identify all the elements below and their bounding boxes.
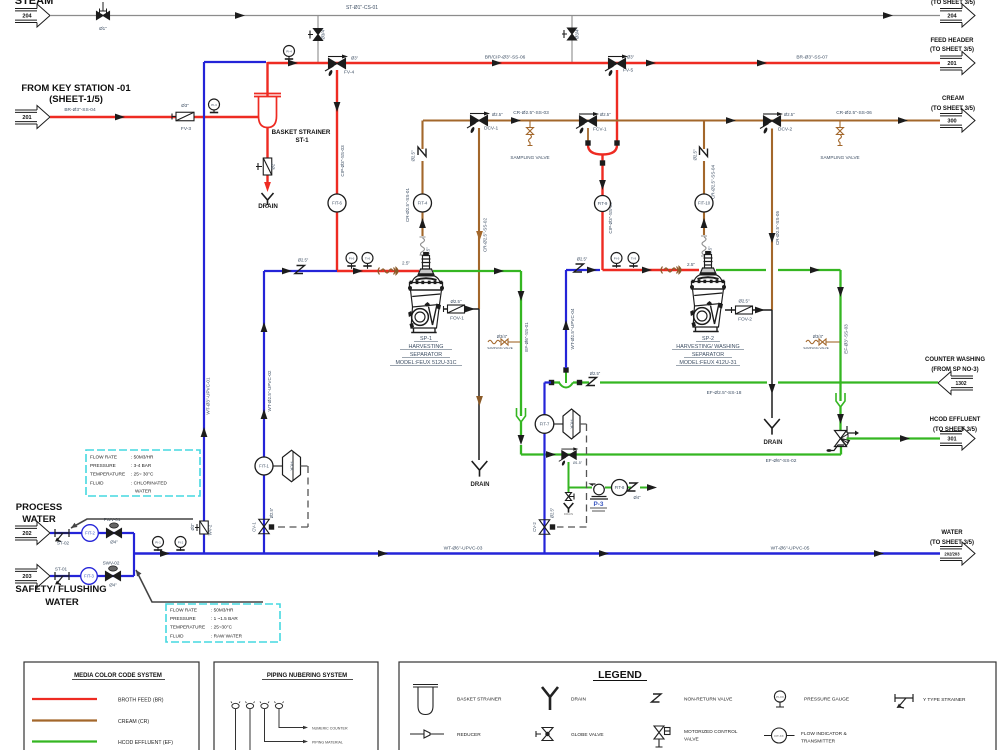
svg-text:COUNTER WASHING: COUNTER WASHING (925, 357, 985, 363)
svg-text:MODEL:FEUX 412U-31: MODEL:FEUX 412U-31 (679, 360, 736, 366)
wire drain drop SP-2 (771, 310, 773, 418)
svg-text:CR-Ø2.5"-SS-06: CR-Ø2.5"-SS-06 (836, 110, 872, 116)
svg-text:NUMERIC COUNTER: NUMERIC COUNTER (312, 727, 348, 731)
flow transmitter FIT-10 (695, 194, 713, 212)
valve Ø1" on steam line (97, 12, 110, 20)
arrow on SP-2 inlet (642, 267, 652, 274)
svg-text:SAFETY/ FLUSHING: SAFETY/ FLUSHING (15, 584, 106, 595)
wire feed header red BR/CIP-Ø3"-SS-06 (268, 62, 941, 64)
svg-text:EF-Ø6"-SS-01: EF-Ø6"-SS-01 (524, 322, 529, 352)
flexible coil SP-2 top (701, 236, 707, 256)
legend non-return valve symbol (652, 694, 662, 702)
wire CR-Ø2.5"-SS-04 SP-2 riser (703, 121, 705, 235)
svg-text:SEPARATOR: SEPARATOR (692, 352, 724, 358)
svg-text:PI-9: PI-9 (614, 256, 620, 260)
valve FV-5 (605, 55, 628, 77)
svg-text:WT-Ø3"-UPVC-01: WT-Ø3"-UPVC-01 (206, 377, 211, 415)
legend hcod effluent sample (32, 740, 97, 742)
svg-text:FV-4: FV-4 (344, 70, 354, 76)
svg-text:CV-1: CV-1 (252, 522, 257, 532)
svg-text:(TO SHEET 3/5): (TO SHEET 3/5) (931, 106, 975, 112)
off-page connector 201 broth feed inlet (15, 106, 50, 129)
legend pressure gauge symbol (774, 691, 785, 702)
svg-text:Ø4": Ø4" (633, 495, 641, 500)
valve on effluent line Ø1.5" (559, 447, 579, 466)
svg-text:300: 300 (947, 119, 956, 125)
off-page connector 204 steam inlet (15, 4, 50, 27)
svg-text:202/203: 202/203 (944, 552, 960, 557)
svg-text:EF-Ø3"-SS-03: EF-Ø3"-SS-03 (844, 324, 849, 354)
arrow up SS-01 (419, 218, 426, 228)
legend box piping numbering system (214, 662, 378, 750)
svg-text:FIT-9: FIT-9 (598, 201, 608, 206)
svg-text:FLOW RATE: FLOW RATE (90, 455, 117, 460)
svg-text:CR-Ø2.5"-SS-02: CR-Ø2.5"-SS-02 (483, 218, 488, 252)
svg-text:Ø4": Ø4" (109, 583, 117, 588)
svg-text:ST-01: ST-01 (55, 567, 68, 572)
svg-text:Ø3/4": Ø3/4" (497, 334, 508, 339)
legend box media color code (24, 662, 199, 750)
svg-text:WT-Ø2.5"-UPVC-04: WT-Ø2.5"-UPVC-04 (570, 308, 575, 349)
svg-text:ST-Ø1"-CS-01: ST-Ø1"-CS-01 (346, 5, 378, 11)
svg-text:DCV-1: DCV-1 (484, 126, 498, 132)
svg-text:2.5": 2.5" (402, 261, 410, 266)
svg-text:SAMPLING VALVE: SAMPLING VALVE (487, 346, 513, 350)
svg-text:PIPING NUBERING SYSTEM: PIPING NUBERING SYSTEM (267, 673, 347, 679)
svg-text:CREAM (CR): CREAM (CR) (118, 719, 149, 725)
svg-text:Ø3": Ø3" (351, 56, 359, 61)
svg-text:FCV-1: FCV-1 (593, 127, 607, 133)
svg-text:BASKET STRAINER: BASKET STRAINER (272, 129, 331, 136)
wire steam drop 1 (317, 16, 319, 63)
svg-text:: 25~ 30°C: : 25~ 30°C (131, 472, 154, 477)
arrow down CIP-SS-05 (599, 180, 606, 190)
svg-text:FICA: FICA (570, 419, 575, 428)
svg-text:FV-3: FV-3 (181, 126, 191, 132)
svg-text:204: 204 (22, 14, 32, 20)
svg-text:WT-Ø6"-UPVC-03: WT-Ø6"-UPVC-03 (444, 546, 483, 552)
off-page connector 202 process water (15, 522, 50, 545)
Y strainer ST-01 (55, 572, 69, 585)
svg-text:SEPARATOR: SEPARATOR (410, 352, 442, 358)
pump P-3 (590, 484, 608, 499)
HCOD control valve (827, 426, 860, 452)
svg-text:FOV-2: FOV-2 (738, 317, 752, 323)
svg-text:201: 201 (22, 115, 31, 121)
callout leader to safety water line (136, 570, 263, 602)
svg-text:WV-2: WV-2 (208, 524, 213, 535)
svg-text:Y TYPE STRAINER: Y TYPE STRAINER (923, 697, 966, 703)
svg-text:Ø4": Ø4" (110, 540, 118, 545)
svg-text:CR-Ø2.5"-SS-03: CR-Ø2.5"-SS-03 (513, 110, 549, 116)
svg-text:TEMPERATURE: TEMPERATURE (170, 625, 205, 630)
svg-text:PI-3: PI-3 (211, 103, 217, 107)
svg-text:PROCESS: PROCESS (16, 502, 62, 513)
non-return valve on SS-01 (418, 147, 426, 157)
separator SP-2 harvesting/washing (690, 252, 726, 332)
sampling valve on cream header 1 (527, 121, 534, 146)
svg-text:STEAM: STEAM (15, 0, 54, 7)
separator SP-1 harvesting (408, 253, 444, 333)
svg-text:FICA: FICA (290, 461, 295, 470)
svg-text:Ø3": Ø3" (190, 523, 195, 531)
svg-text:SWV-02: SWV-02 (103, 561, 120, 566)
flow transmitter FIT-7 (535, 415, 554, 434)
svg-text:2.5": 2.5" (687, 262, 695, 267)
valve Ø3/4" steam drop 2 (568, 28, 577, 40)
wire CR-Ø2.5"-SS-01 SP-1 riser (421, 121, 423, 237)
wire EF-Ø6"-SS-01 SP-1 outlet (433, 271, 521, 407)
junction blue to green counter washing (559, 372, 573, 388)
basket strainer ST-1 (254, 94, 281, 128)
svg-text:PI-1: PI-1 (155, 540, 161, 544)
svg-text:BR-Ø3"-SS-04: BR-Ø3"-SS-04 (64, 107, 96, 113)
valve DCV-2 (760, 112, 783, 134)
wire red drop from FV-5 (616, 70, 618, 141)
legend reducer symbol (410, 730, 444, 738)
gauges on SP-1 inlet (351, 263, 353, 269)
legend motorized control valve symbol (654, 726, 670, 747)
svg-text:EF-Ø2.5"-SS-18: EF-Ø2.5"-SS-18 (707, 390, 742, 396)
wire CR-Ø2.5"-SS-05 DCV-2 drop (771, 129, 773, 311)
valve SWV-02 (106, 572, 121, 581)
svg-text:PRESSURE GAUGE: PRESSURE GAUGE (804, 697, 849, 703)
square connector CV-2 (550, 524, 555, 529)
svg-text:Ø2.5": Ø2.5" (784, 112, 795, 117)
flow transmitter FIT-4 (414, 194, 432, 212)
svg-text:HARVESTING/ WASHING: HARVESTING/ WASHING (676, 344, 740, 350)
non-return valve on UPVC-02 top (295, 266, 305, 274)
drain globe valve under effluent valve (568, 462, 570, 492)
callout leader to process water line (71, 519, 193, 528)
svg-text:301: 301 (947, 437, 956, 443)
svg-text:BROTH FEED (BR): BROTH FEED (BR) (118, 698, 164, 704)
non-return valve on SS-04 (700, 147, 708, 157)
svg-text:PI-4: PI-4 (286, 49, 292, 53)
arrow down strainer drain (264, 182, 271, 192)
legend box symbols (399, 662, 996, 750)
svg-text:(FROM SP NO-3): (FROM SP NO-3) (931, 367, 978, 373)
svg-text:ST-1: ST-1 (295, 137, 309, 144)
svg-text:FIT-1: FIT-1 (259, 464, 269, 469)
svg-text:FOV-1: FOV-1 (450, 316, 464, 322)
svg-text:WATER: WATER (45, 597, 79, 608)
wire water join vertical (133, 533, 135, 576)
legend flow indicator transmitter symbol (772, 728, 787, 743)
svg-text:Ø2": Ø2" (271, 162, 276, 170)
arrow on BR-Ø3-SS-04 (115, 114, 125, 121)
wire WT-Ø2.5"-UPVC-04 riser (566, 270, 600, 368)
wire counter washing EF-Ø2.5"-SS-18 (600, 381, 938, 383)
svg-text:CREAM: CREAM (942, 96, 964, 102)
svg-text:EF-Ø6"-SS-02: EF-Ø6"-SS-02 (766, 458, 797, 464)
valve CV-2 (539, 520, 550, 535)
wire HCOD effluent out (847, 437, 941, 439)
non-return valve after FIT-8 (628, 483, 638, 491)
svg-text:FLUID: FLUID (170, 633, 184, 638)
wire water main WT-Ø6-UPVC (134, 552, 940, 554)
wire FCV-1 to junction wishbone (587, 128, 589, 141)
svg-text:: 3-4 BAR: : 3-4 BAR (131, 463, 152, 468)
flow transmitter FIT-3 (81, 568, 98, 585)
svg-text:DRAIN: DRAIN (564, 512, 573, 516)
svg-text:FLOW INDICATOR &: FLOW INDICATOR & (801, 731, 847, 737)
wire WT-Ø2.5"-UPVC-02 riser (264, 271, 337, 553)
svg-text:Ø2.5": Ø2.5" (450, 299, 462, 304)
svg-text:1302: 1302 (955, 381, 966, 387)
svg-text:(SHEET-1/5): (SHEET-1/5) (49, 94, 103, 105)
svg-text:FIT-7: FIT-7 (540, 422, 550, 427)
svg-text:MEDIA COLOR CODE SYSTEM: MEDIA COLOR CODE SYSTEM (74, 673, 162, 679)
piping numbering stubs (232, 703, 239, 708)
legend broth feed red sample (32, 698, 97, 700)
wire steam main ST-Ø1"-CS-01 (50, 15, 940, 17)
svg-text:: 50M3/HR: : 50M3/HR (211, 608, 234, 613)
svg-text:WT-Ø2.5"-UPVC-02: WT-Ø2.5"-UPVC-02 (267, 370, 272, 411)
svg-text:CR-Ø2.5"-SS-04: CR-Ø2.5"-SS-04 (711, 165, 716, 199)
svg-text:203: 203 (22, 574, 31, 580)
svg-text:VALVE: VALVE (684, 737, 699, 743)
arrow on blue inlet SP-2 (587, 267, 597, 274)
valve Ø2" strainer drain (263, 158, 272, 175)
svg-text:PRESSURE: PRESSURE (90, 463, 116, 468)
svg-text:BR/CIP-Ø3"-SS-06: BR/CIP-Ø3"-SS-06 (485, 55, 526, 61)
wire safety water line (50, 575, 134, 577)
svg-text:GLOBE VALVE: GLOBE VALVE (571, 732, 604, 738)
controller FICA-1 hexagon (273, 465, 283, 467)
arrow up SS-04 (701, 218, 708, 228)
svg-text:WATER: WATER (941, 530, 963, 536)
svg-text:NON-RETURN VALVE: NON-RETURN VALVE (684, 697, 732, 703)
svg-text:201: 201 (947, 61, 956, 67)
flow transmitter FIT-1 (255, 457, 273, 475)
arrow on SP-1 inlet (353, 268, 363, 275)
svg-text:Ø2.5": Ø2.5" (269, 507, 274, 518)
svg-text:Ø3": Ø3" (627, 55, 635, 60)
svg-text:FIT-XX: FIT-XX (774, 734, 783, 738)
info box safety water spec (166, 604, 280, 642)
flow transmitter FIT-9 (595, 196, 611, 212)
flexible coil SP-1 top (420, 237, 426, 256)
svg-text:: 50M3/HR: : 50M3/HR (131, 455, 154, 460)
svg-text:: RAW WATER: : RAW WATER (211, 633, 243, 638)
off-page connector 203 safety water (15, 565, 50, 588)
valve WV-2 (200, 521, 209, 534)
wire drain drop SP-1 (478, 309, 480, 460)
valve PWV-01 (107, 529, 122, 538)
svg-text:Ø1": Ø1" (99, 26, 107, 31)
svg-text:FEED HEADER: FEED HEADER (930, 38, 974, 44)
svg-text:Ø2.5": Ø2.5" (590, 371, 601, 376)
valve FOV-1 (444, 305, 465, 313)
svg-text:SAMPLING VALVE: SAMPLING VALVE (803, 346, 829, 350)
svg-text:SAMPLING VALVE: SAMPLING VALVE (510, 155, 549, 160)
wire SP-2 sludge line to FOV-2 (725, 309, 772, 311)
valve CV-1 (259, 519, 270, 534)
svg-text:Ø2.5": Ø2.5" (577, 257, 588, 262)
svg-text:(TO SHEET 3/5): (TO SHEET 3/5) (931, 0, 975, 6)
svg-text:LEGEND: LEGEND (598, 669, 642, 681)
svg-text:FV-5: FV-5 (623, 68, 633, 74)
svg-text:CIP-Ø3"-SS-03: CIP-Ø3"-SS-03 (340, 145, 345, 177)
pressure gauge PI-4 (288, 56, 290, 61)
flexible connection SP-2 inlet 2.5" (661, 267, 681, 274)
wire pump to FIT-8 (605, 487, 648, 489)
legend y type strainer symbol (895, 694, 913, 708)
svg-text:SAMPLING VALVE: SAMPLING VALVE (820, 155, 859, 160)
wire CR-Ø2.5"-SS-02 DCV-1 drop (478, 128, 480, 309)
svg-text:TI-6: TI-6 (365, 256, 371, 260)
svg-text:Ø2.5": Ø2.5" (492, 112, 503, 117)
svg-text:FIT-3: FIT-3 (84, 574, 94, 579)
svg-text:FROM KEY STATION -01: FROM KEY STATION -01 (21, 83, 131, 94)
svg-text:(TO SHEET 3/5): (TO SHEET 3/5) (933, 427, 977, 433)
svg-text:Ø1.5": Ø1.5" (573, 461, 583, 465)
wire cream header CR-Ø2.5"-SS-03 (423, 119, 940, 121)
svg-text:REDUCER: REDUCER (457, 732, 481, 738)
wire strainer vertical red (266, 62, 268, 158)
svg-text:HARVESTING: HARVESTING (409, 344, 444, 350)
svg-text:SP-1: SP-1 (420, 336, 432, 342)
valve FV-3 (172, 112, 194, 121)
svg-text:FIT-2: FIT-2 (85, 531, 95, 536)
legend drain symbol (542, 687, 558, 710)
svg-text:DRAIN: DRAIN (471, 482, 490, 488)
wire BR-Ø3"-SS-04 (50, 116, 258, 118)
svg-text:DRAIN: DRAIN (571, 697, 586, 703)
gauges on SP-2 inlet (616, 263, 618, 268)
wire steam drop 2 (571, 16, 573, 63)
non-return valve on counter washing (587, 378, 597, 386)
svg-text:MOTORIZED CONTROL: MOTORIZED CONTROL (684, 729, 738, 735)
wire process water line (50, 532, 134, 534)
flexible connection SP-1 inlet 2.5" (378, 268, 398, 275)
air gap funnel SP-1 effluent (517, 408, 526, 422)
legend cream sample (32, 719, 97, 721)
svg-text:PI-2: PI-2 (178, 540, 184, 544)
svg-text:Ø2.5": Ø2.5" (600, 112, 611, 117)
wire SP-2 outlet green (716, 270, 841, 382)
svg-text:FLOW RATE: FLOW RATE (170, 608, 197, 613)
valve DCV-1 (467, 112, 490, 134)
svg-text:HCOD EFFLUENT (EF): HCOD EFFLUENT (EF) (118, 740, 173, 746)
svg-text:(TO SHEET 3/5): (TO SHEET 3/5) (930, 540, 974, 546)
non-return valve on UPVC-04 top (574, 264, 584, 272)
wire WT-Ø3"-UPVC-01 riser (203, 62, 205, 553)
valve FCV-1 (576, 112, 599, 134)
arrow on blue inlet SP-1 (282, 268, 292, 275)
svg-text:PI-6: PI-6 (349, 256, 355, 260)
dashed control line FICA-1 to CV-1 (276, 466, 308, 527)
dashed control line FICA-2 to CV-2 (557, 424, 587, 527)
junction squares near FCV-1 (585, 140, 590, 145)
valve FV-4 (325, 55, 348, 77)
sampling valve on cream header 2 (837, 121, 844, 146)
gauges on water main (157, 547, 159, 551)
svg-text:Ø2.5": Ø2.5" (738, 299, 750, 304)
svg-text:DCV-2: DCV-2 (778, 127, 792, 133)
air gap funnel SP-2 effluent (836, 393, 845, 407)
svg-text:TRANSMITTER: TRANSMITTER (801, 739, 836, 745)
svg-text:CR-Ø2.5"-SS-01: CR-Ø2.5"-SS-01 (405, 188, 410, 222)
svg-text:FIT-4: FIT-4 (418, 201, 428, 206)
svg-text:: 1 ~1.5 BAR: : 1 ~1.5 BAR (211, 616, 238, 621)
square connector CV-1 (269, 524, 274, 529)
svg-text:P-3: P-3 (594, 501, 604, 508)
wire SP-1 sludge line to FOV-1 (443, 308, 479, 310)
valve Ø3/4" steam drop 1 (314, 29, 323, 41)
svg-text:CV-2: CV-2 (532, 522, 537, 532)
svg-text:202: 202 (22, 531, 31, 537)
svg-text:: CHLORINATED: : CHLORINATED (131, 480, 167, 485)
svg-text:Ø3": Ø3" (181, 103, 189, 108)
Y strainer ST-02 (55, 529, 69, 542)
wire EF-Ø6"-SS-02 main effluent (521, 445, 841, 455)
svg-text:204: 204 (947, 14, 957, 20)
svg-text:FIT-10: FIT-10 (698, 201, 711, 206)
svg-text:BASKET STRAINER: BASKET STRAINER (457, 697, 502, 703)
pressure gauge on strainer inlet (213, 110, 215, 114)
arrows on feed header (288, 60, 298, 67)
svg-text:Ø2.5": Ø2.5" (298, 258, 309, 263)
svg-text:(TO SHEET 3/5): (TO SHEET 3/5) (930, 47, 974, 53)
svg-text:Ø3/4": Ø3/4" (575, 28, 580, 40)
legend globe valve symbol (542, 728, 553, 741)
svg-text:Ø2.5": Ø2.5" (693, 149, 698, 161)
valve FOV-2 (732, 306, 753, 314)
svg-text:MODEL:FEUX 512U-31C: MODEL:FEUX 512U-31C (395, 360, 456, 366)
flow transmitter FIT-6 (328, 194, 346, 212)
svg-text:DRAIN: DRAIN (764, 440, 783, 446)
flow transmitter FIT-2 (82, 525, 99, 542)
svg-text:PI-XX: PI-XX (776, 695, 784, 699)
wire blue drop to CV-2 (545, 383, 552, 554)
arrow on steam line (235, 12, 245, 19)
svg-text:WATER: WATER (135, 489, 152, 494)
info box process water spec (86, 450, 200, 496)
controller FICA-2 hexagon (554, 423, 563, 425)
arrows on cream header (511, 117, 521, 124)
wire CIP-Ø3"-SS-03 drop (337, 70, 419, 271)
legend basket strainer symbol (413, 685, 438, 715)
svg-text:DRAIN: DRAIN (258, 203, 278, 210)
svg-text:CR-Ø2.5"-SS-05: CR-Ø2.5"-SS-05 (775, 211, 780, 245)
svg-text:FLUID: FLUID (90, 480, 104, 485)
svg-text:PIPING MATERIAL: PIPING MATERIAL (312, 741, 343, 745)
wire blue top connection to strainer (204, 61, 266, 63)
drain symbol SP-2 drop (764, 419, 780, 435)
svg-text:SP-2: SP-2 (702, 336, 714, 342)
drain symbol under ST-1 (262, 193, 274, 205)
svg-text:: 25~30°C: : 25~30°C (211, 625, 233, 630)
svg-text:BR-Ø3"-SS-07: BR-Ø3"-SS-07 (796, 55, 828, 61)
svg-text:Ø3/4": Ø3/4" (813, 334, 824, 339)
arrow on steam line right (883, 12, 893, 19)
svg-text:HCOD EFFLUENT: HCOD EFFLUENT (930, 417, 981, 423)
svg-text:FIT-8: FIT-8 (615, 485, 625, 490)
svg-text:WT-Ø6"-UPVC-05: WT-Ø6"-UPVC-05 (771, 546, 810, 552)
drain symbol SP-1 drop (472, 461, 488, 477)
svg-text:Ø2.5": Ø2.5" (550, 507, 555, 518)
svg-text:TEMPERATURE: TEMPERATURE (90, 472, 125, 477)
svg-text:FIT-6: FIT-6 (332, 201, 342, 206)
svg-text:TI-9: TI-9 (631, 256, 637, 260)
svg-text:ST-02: ST-02 (57, 541, 70, 546)
wire valve branch to pump P-3 (569, 462, 593, 488)
flow transmitter FIT-8 (612, 480, 628, 496)
svg-text:Ø2.5": Ø2.5" (411, 150, 416, 162)
svg-text:PRESSURE: PRESSURE (170, 616, 196, 621)
